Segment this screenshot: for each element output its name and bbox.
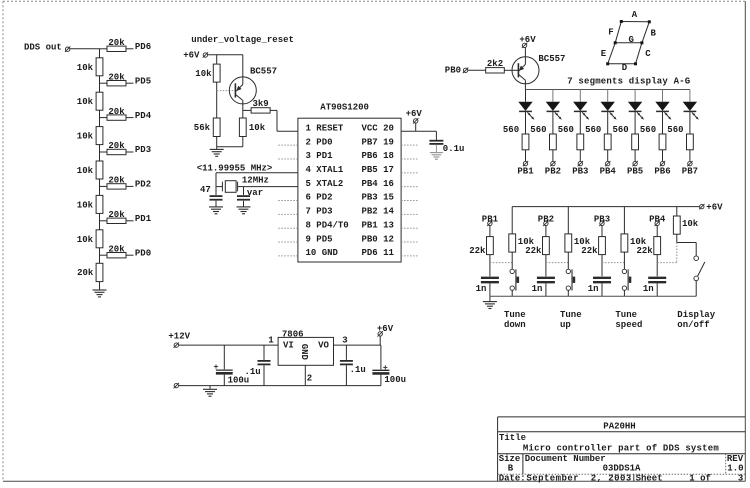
wire ladder row PD3	[100, 151, 108, 153]
wire DDS out to ladder	[70, 48, 100, 50]
svg-text:+12V: +12V	[168, 331, 190, 341]
ground tune section	[489, 296, 491, 301]
switch display on/off	[694, 256, 699, 261]
svg-text:PD2: PD2	[135, 180, 151, 190]
svg-text:PB4 16: PB4 16	[362, 179, 394, 189]
resistor 10k ladder series	[96, 92, 103, 110]
svg-text:20k: 20k	[108, 210, 125, 220]
resistor 20k to PD1	[107, 218, 126, 223]
resistor 20k to PD5	[107, 81, 126, 86]
svg-text:PD5: PD5	[135, 76, 151, 86]
segment D	[608, 63, 636, 65]
svg-text:PB3 15: PB3 15	[362, 193, 394, 203]
wire base connection	[217, 90, 236, 92]
svg-text:1n: 1n	[588, 284, 599, 294]
ground xtal cap 47	[209, 206, 223, 208]
wire ladder vertical bus	[99, 49, 101, 263]
segment C	[636, 43, 642, 64]
svg-text:BC557: BC557	[250, 66, 277, 76]
wire cap to ground rail	[656, 283, 658, 296]
svg-text:7 PD3: 7 PD3	[306, 207, 333, 217]
svg-text:10k: 10k	[77, 200, 94, 210]
node PB6 terminal	[660, 161, 664, 165]
resistor 2k2 base	[486, 68, 505, 73]
svg-text:03DDS1A: 03DDS1A	[603, 464, 641, 474]
svg-text:22k: 22k	[581, 246, 598, 256]
svg-text:+6V: +6V	[183, 51, 200, 61]
svg-text:PD0: PD0	[135, 248, 151, 258]
svg-text:PD3: PD3	[135, 145, 151, 155]
svg-text:10k: 10k	[574, 237, 591, 247]
ground xtal cap var	[237, 206, 251, 208]
wire node link dotted	[546, 262, 568, 264]
resistor 10k collector pulldown	[239, 118, 246, 137]
svg-text:1 of: 1 of	[689, 473, 711, 483]
wire LED anode rail	[525, 89, 690, 91]
svg-text:20k: 20k	[77, 268, 94, 278]
svg-text:47: 47	[200, 185, 211, 195]
capacitor 100u input	[223, 345, 225, 369]
node PB4 terminal	[606, 161, 610, 165]
svg-text:560: 560	[585, 125, 601, 135]
svg-text:on/off: on/off	[677, 320, 709, 330]
wire resistor to PB1 terminal	[525, 150, 527, 162]
svg-text:1n: 1n	[532, 284, 543, 294]
svg-text:September 2, 2003: September 2, 2003	[526, 473, 631, 483]
wire node link dotted	[602, 262, 624, 264]
wire 10k display node	[676, 234, 678, 242]
wire 22k to node	[656, 255, 658, 277]
resistor 10k ladder series	[96, 58, 103, 76]
capacitor 1n PB2	[537, 277, 555, 279]
svg-text:+6V: +6V	[519, 35, 536, 45]
wire tune ground rail	[490, 295, 696, 297]
wire PB0 to 2k2	[468, 69, 486, 71]
resistor 22k PB3	[599, 237, 606, 255]
svg-text:Sheet: Sheet	[636, 473, 663, 483]
wire anode riser PB5 LED	[634, 90, 636, 102]
svg-text:20k: 20k	[108, 176, 125, 186]
svg-text:100u: 100u	[384, 375, 406, 385]
wire 22k to node	[489, 255, 491, 277]
svg-text:1: 1	[268, 336, 274, 346]
capacitor 1n PB3	[593, 277, 611, 279]
node PB1 terminal	[523, 161, 527, 165]
svg-text:5 XTAL2: 5 XTAL2	[306, 179, 344, 189]
svg-text:20k: 20k	[108, 38, 125, 48]
svg-text:VO: VO	[318, 340, 329, 350]
node PB7 terminal	[688, 161, 692, 165]
wire VCC pin 20	[401, 130, 436, 132]
svg-text:4 XTAL1: 4 XTAL1	[306, 165, 344, 175]
resistor 20k to PD4	[107, 115, 126, 120]
svg-text:PB6 18: PB6 18	[362, 151, 394, 161]
wire XTAL1	[216, 172, 298, 174]
wire LED to resistor	[607, 111, 609, 134]
segment A	[621, 21, 649, 23]
wire cap to ground rail	[545, 283, 547, 296]
wire resistor to PB5 terminal	[634, 150, 636, 162]
svg-text:PB5: PB5	[627, 167, 643, 177]
svg-text:.1u: .1u	[350, 365, 366, 375]
wire to divider	[216, 55, 218, 64]
svg-text:PB6: PB6	[654, 167, 670, 177]
svg-text:B: B	[508, 464, 514, 474]
resistor 10k pullup 1	[509, 234, 516, 252]
capacitor 0.1u decoupling	[429, 140, 443, 142]
wire LED to resistor	[689, 111, 691, 134]
wire switch to ground rail	[623, 290, 625, 296]
wire LED to resistor	[579, 111, 581, 134]
crystal Y1 12MHz	[216, 186, 222, 188]
wire LED to resistor	[634, 111, 636, 134]
svg-text:22k: 22k	[469, 246, 486, 256]
resistor 22k PB1	[487, 237, 494, 255]
svg-text:8 PD4/T0: 8 PD4/T0	[306, 220, 349, 230]
LED D1	[518, 102, 532, 111]
wire resistor to PB7 terminal	[689, 150, 691, 162]
svg-text:A: A	[632, 10, 638, 20]
wire PB3 to 22k	[601, 226, 603, 237]
schematic sheet border frame	[3, 0, 745, 2]
wire PB2 to 22k	[545, 226, 547, 237]
wire switch to ground rail	[567, 290, 569, 296]
svg-text:Display: Display	[677, 310, 715, 320]
svg-text:PD6 11: PD6 11	[362, 248, 395, 258]
wire ladder row PD2	[100, 185, 108, 187]
resistor 22k PB2	[543, 237, 550, 255]
svg-text:G: G	[628, 35, 633, 45]
wire anode riser PB1 LED	[525, 90, 527, 102]
svg-text:20k: 20k	[108, 72, 125, 82]
svg-text:3: 3	[342, 336, 347, 346]
resistor R 10k upper divider	[213, 64, 220, 82]
svg-text:D: D	[622, 63, 628, 73]
svg-text:2: 2	[307, 374, 312, 384]
wire LED to resistor	[552, 111, 554, 134]
wire ladder row PD0	[100, 254, 108, 256]
svg-text:56k: 56k	[194, 123, 211, 133]
resistor 10k pullup 3	[621, 234, 628, 252]
LED D2	[546, 102, 560, 111]
svg-text:Tune: Tune	[504, 310, 526, 320]
svg-text:10k: 10k	[682, 219, 699, 229]
svg-text:2k2: 2k2	[487, 59, 503, 69]
resistor 10k ladder series	[96, 195, 103, 213]
svg-text:560: 560	[530, 125, 546, 135]
wire PB1 to 22k	[489, 226, 491, 237]
svg-text:10k: 10k	[518, 237, 535, 247]
svg-text:10k: 10k	[195, 69, 212, 79]
svg-text:Date:: Date:	[499, 473, 526, 483]
svg-text:B: B	[650, 28, 656, 38]
svg-text:20k: 20k	[108, 244, 125, 254]
svg-text:PD6: PD6	[135, 42, 151, 52]
wire collector to 3k9	[243, 109, 251, 111]
segment E	[608, 43, 616, 64]
title block frame	[497, 417, 499, 481]
wire cap to ground rail	[489, 283, 491, 296]
wire anode riser PB7 LED	[689, 90, 691, 102]
wire 3k9 to RESET pin 1	[270, 109, 277, 111]
svg-text:GND: GND	[299, 344, 309, 361]
svg-text:C: C	[645, 49, 651, 59]
svg-text:PB1: PB1	[517, 167, 534, 177]
node +6V tune rail	[512, 206, 699, 208]
svg-text:PB2 14: PB2 14	[362, 207, 395, 217]
svg-text:Tune: Tune	[560, 310, 582, 320]
wire +6V rail to emitter	[208, 54, 243, 56]
wire rail to display 10k	[676, 207, 678, 216]
wire rail to 10k 2	[567, 207, 569, 234]
resistor 10k ladder series	[96, 127, 103, 145]
LED D4	[601, 102, 615, 111]
LED D3	[573, 102, 587, 111]
svg-text:7 segments display A-G: 7 segments display A-G	[567, 77, 690, 87]
wire node link dotted	[490, 262, 512, 264]
wire ladder row PD4	[100, 117, 108, 119]
wire ground rail psu	[179, 385, 381, 387]
svg-text:10k: 10k	[630, 237, 647, 247]
wire ladder row PD1	[100, 220, 108, 222]
LED D6	[655, 102, 669, 111]
resistor 20k to PD0	[107, 253, 126, 258]
resistor 10k ladder series	[96, 230, 103, 248]
resistor 10k display	[673, 216, 680, 234]
ground ladder	[93, 289, 107, 291]
wire node link dotted	[657, 262, 677, 264]
resistor 10k ladder series	[96, 161, 103, 179]
node PB2 terminal	[551, 161, 555, 165]
switch pushbutton 2	[566, 269, 570, 273]
svg-text:10k: 10k	[249, 123, 266, 133]
svg-text:9 PD5: 9 PD5	[306, 234, 333, 244]
wire 22k to node	[545, 255, 547, 277]
wire ladder row PD6	[100, 48, 108, 50]
svg-text:Title: Title	[499, 433, 526, 443]
svg-text:560: 560	[640, 125, 656, 135]
svg-text:0.1u: 0.1u	[443, 144, 465, 154]
svg-text:+6V: +6V	[406, 109, 423, 119]
svg-text:Document Number: Document Number	[525, 454, 606, 464]
segment F	[615, 22, 621, 43]
LED D5	[628, 102, 642, 111]
svg-text:PD1: PD1	[135, 214, 152, 224]
svg-text:3 PD1: 3 PD1	[306, 151, 334, 161]
wire resistor to PB6 terminal	[662, 150, 664, 162]
svg-text:10k: 10k	[77, 97, 94, 107]
svg-text:VI: VI	[283, 340, 294, 350]
wire divider middle	[216, 82, 218, 118]
svg-text:1 RESET: 1 RESET	[306, 124, 344, 134]
wire ladder row PD5	[100, 82, 108, 84]
svg-text:560: 560	[558, 125, 574, 135]
wire output rail	[334, 344, 381, 346]
svg-text:Tune: Tune	[615, 310, 637, 320]
svg-text:20k: 20k	[108, 141, 125, 151]
svg-text:1n: 1n	[476, 284, 487, 294]
ground under voltage divider	[216, 147, 218, 150]
wire anode riser PB2 LED	[552, 90, 554, 102]
svg-text:.1u: .1u	[244, 367, 260, 377]
capacitor .1u output	[345, 345, 347, 360]
svg-text:10k: 10k	[77, 166, 94, 176]
wire resistor to PB4 terminal	[607, 150, 609, 162]
wire to ground	[99, 282, 101, 290]
wire PB4 to 22k	[656, 226, 658, 237]
svg-text:PB0: PB0	[445, 65, 461, 75]
svg-text:PA20HH: PA20HH	[603, 421, 635, 431]
resistor 3k9	[251, 108, 270, 113]
wire rail to 10k 1	[511, 207, 513, 234]
wire anode riser PB3 LED	[579, 90, 581, 102]
node PB3 terminal	[578, 161, 582, 165]
wire XTAL2	[244, 186, 298, 188]
transistor Q BC557 under-voltage	[229, 77, 256, 104]
svg-text:3: 3	[738, 473, 743, 483]
wire rail to 10k 3	[623, 207, 625, 234]
wire resistor to PB2 terminal	[552, 150, 554, 162]
svg-text:Size: Size	[499, 454, 521, 464]
svg-text:PB1 13: PB1 13	[362, 220, 394, 230]
resistor 20k to PD2	[107, 184, 126, 189]
svg-text:100u: 100u	[228, 376, 250, 386]
svg-text:560: 560	[667, 125, 683, 135]
svg-text:6 PD2: 6 PD2	[306, 193, 333, 203]
ground psu	[209, 386, 211, 390]
svg-text:12MHz: 12MHz	[242, 175, 269, 185]
resistor 20k to PD3	[107, 149, 126, 154]
svg-text:PD4: PD4	[135, 111, 152, 121]
wire LED to resistor	[662, 111, 664, 134]
svg-text:F: F	[608, 28, 613, 38]
node input return terminal	[174, 383, 178, 387]
wire 56k to ground node	[216, 137, 218, 147]
resistor 10k pullup 2	[565, 234, 572, 252]
capacitor 1n PB1	[481, 277, 499, 279]
svg-text:<11.99955 MHz>: <11.99955 MHz>	[197, 164, 273, 174]
resistor 20k to PD6	[107, 46, 126, 51]
resistor 22k PB4	[654, 237, 661, 255]
svg-text:PB5 17: PB5 17	[362, 165, 394, 175]
svg-text:10 GND: 10 GND	[306, 248, 339, 258]
svg-text:E: E	[601, 49, 607, 59]
svg-text:DDS out: DDS out	[24, 43, 62, 53]
resistor 20k ladder bottom	[96, 263, 103, 281]
svg-text:2 PD0: 2 PD0	[306, 137, 333, 147]
svg-text:22k: 22k	[525, 246, 542, 256]
segment B	[642, 22, 649, 43]
capacitor 1n PB4	[648, 277, 666, 279]
svg-text:3k9: 3k9	[252, 99, 268, 109]
svg-text:1n: 1n	[643, 284, 654, 294]
svg-text:PB3: PB3	[572, 167, 588, 177]
svg-text:up: up	[560, 320, 571, 330]
svg-text:BC557: BC557	[538, 54, 565, 64]
svg-text:10k: 10k	[77, 235, 94, 245]
transistor Q BC557 LED driver	[512, 57, 539, 84]
svg-text:under_voltage_reset: under_voltage_reset	[191, 35, 294, 45]
wire 22k to node	[601, 255, 603, 277]
wire switch to ground rail	[695, 281, 697, 297]
wire input rail	[179, 344, 279, 346]
svg-text:AT90S1200: AT90S1200	[320, 103, 369, 113]
ground decoupling cap	[430, 152, 443, 154]
svg-text:22k: 22k	[636, 246, 653, 256]
svg-text:10k: 10k	[77, 63, 94, 73]
wire anode riser PB6 LED	[662, 90, 664, 102]
wire anode riser PB4 LED	[607, 90, 609, 102]
wire cap to ground rail	[601, 283, 603, 296]
svg-text:PB7: PB7	[682, 167, 698, 177]
svg-text:Micro controller part of DDS s: Micro controller part of DDS system	[523, 444, 719, 454]
svg-text:PB7 19: PB7 19	[362, 137, 394, 147]
svg-text:REV: REV	[727, 454, 744, 464]
node PB5 terminal	[633, 161, 637, 165]
wire switch to ground rail	[511, 290, 513, 296]
wire 2k2 to base	[504, 69, 518, 71]
segment G	[615, 42, 642, 44]
wire 10k to switch	[623, 252, 625, 269]
svg-text:10k: 10k	[77, 132, 94, 142]
svg-text:20k: 20k	[108, 107, 125, 117]
wire resistor to PB3 terminal	[579, 150, 581, 162]
svg-text:560: 560	[503, 125, 519, 135]
switch pushbutton 1	[510, 269, 514, 273]
wire 10k to switch	[567, 252, 569, 269]
svg-text:1.0: 1.0	[727, 464, 743, 474]
svg-text:down: down	[504, 320, 526, 330]
resistor 56k lower divider	[213, 118, 220, 137]
capacitor 100u output	[380, 345, 382, 369]
switch pushbutton 3	[622, 269, 626, 273]
svg-text:VCC 20: VCC 20	[362, 124, 394, 134]
svg-text:+6V: +6V	[706, 203, 723, 213]
svg-text:PB0 12: PB0 12	[362, 234, 394, 244]
LED D7	[683, 102, 697, 111]
wire 10k to switch	[511, 252, 513, 269]
wire LED to resistor	[525, 111, 527, 134]
capacitor .1u input	[263, 345, 265, 360]
svg-text:PB4: PB4	[600, 167, 617, 177]
svg-text:PB2: PB2	[545, 167, 561, 177]
svg-text:560: 560	[612, 125, 628, 135]
svg-text:speed: speed	[615, 320, 642, 330]
